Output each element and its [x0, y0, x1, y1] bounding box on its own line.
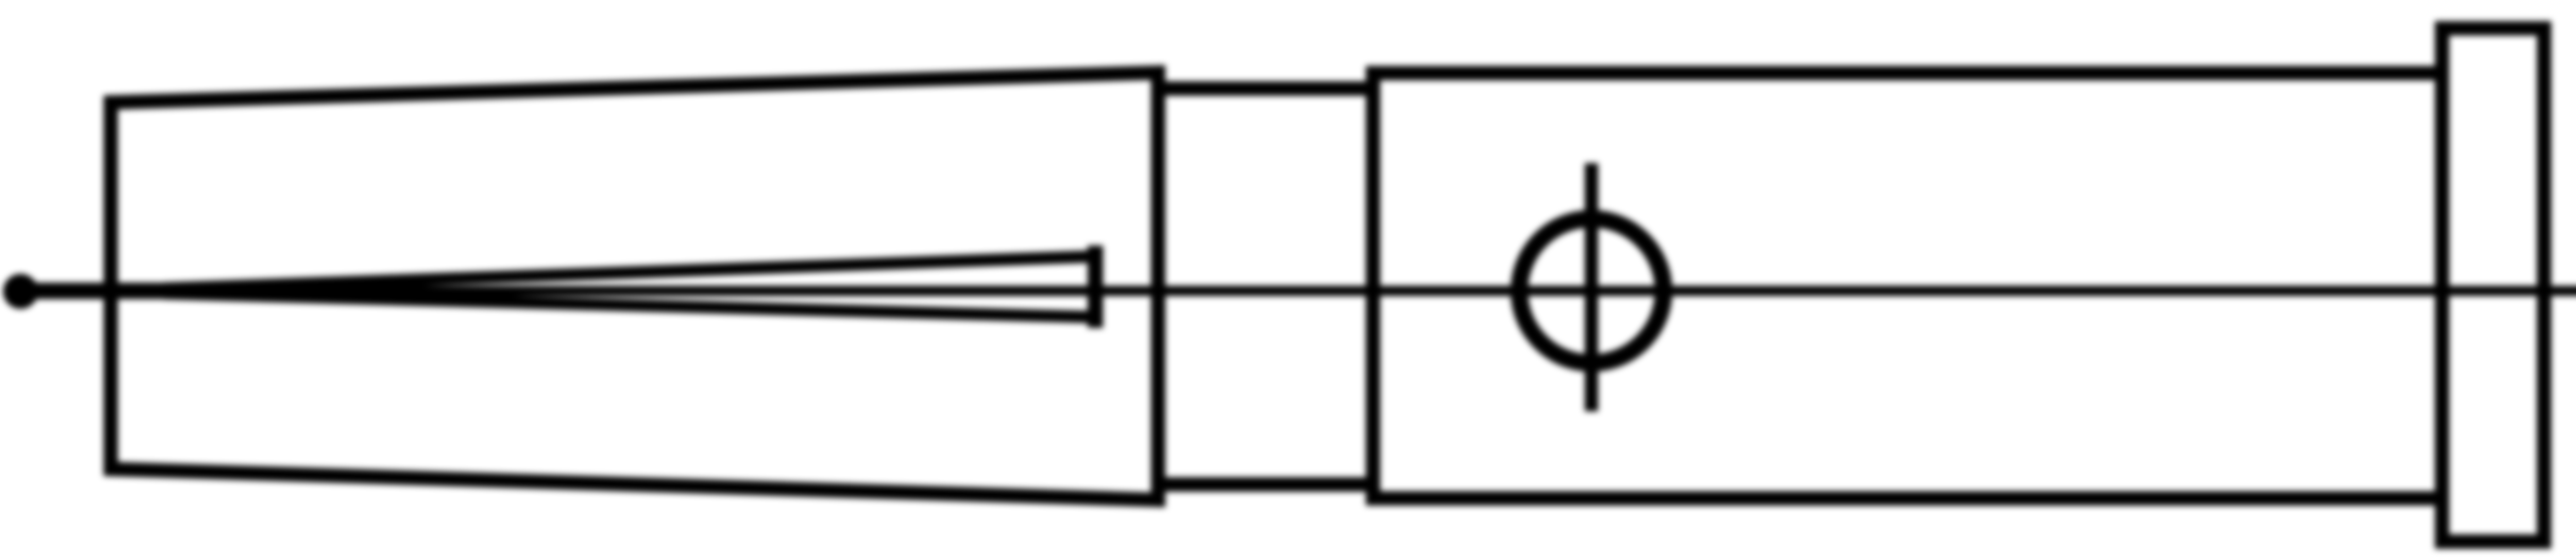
- wire: thick axis stub from dot: [19, 283, 170, 299]
- main cylinder body rectangle: [1373, 73, 2442, 498]
- tang wedge bottom edge: [170, 293, 1095, 317]
- node: axis end dot: [3, 274, 38, 309]
- taper shank body outline: [111, 73, 1158, 500]
- end flange rectangle: [2442, 28, 2544, 542]
- hole symbol circle: [1519, 219, 1664, 363]
- tang wedge top edge: [170, 256, 1095, 288]
- collar rectangle: [1158, 89, 1373, 484]
- tang wedge end cap: [1088, 253, 1103, 320]
- wire: horizontal centerline axis: [165, 286, 2576, 296]
- hole symbol vertical centerline: [1585, 170, 1598, 405]
